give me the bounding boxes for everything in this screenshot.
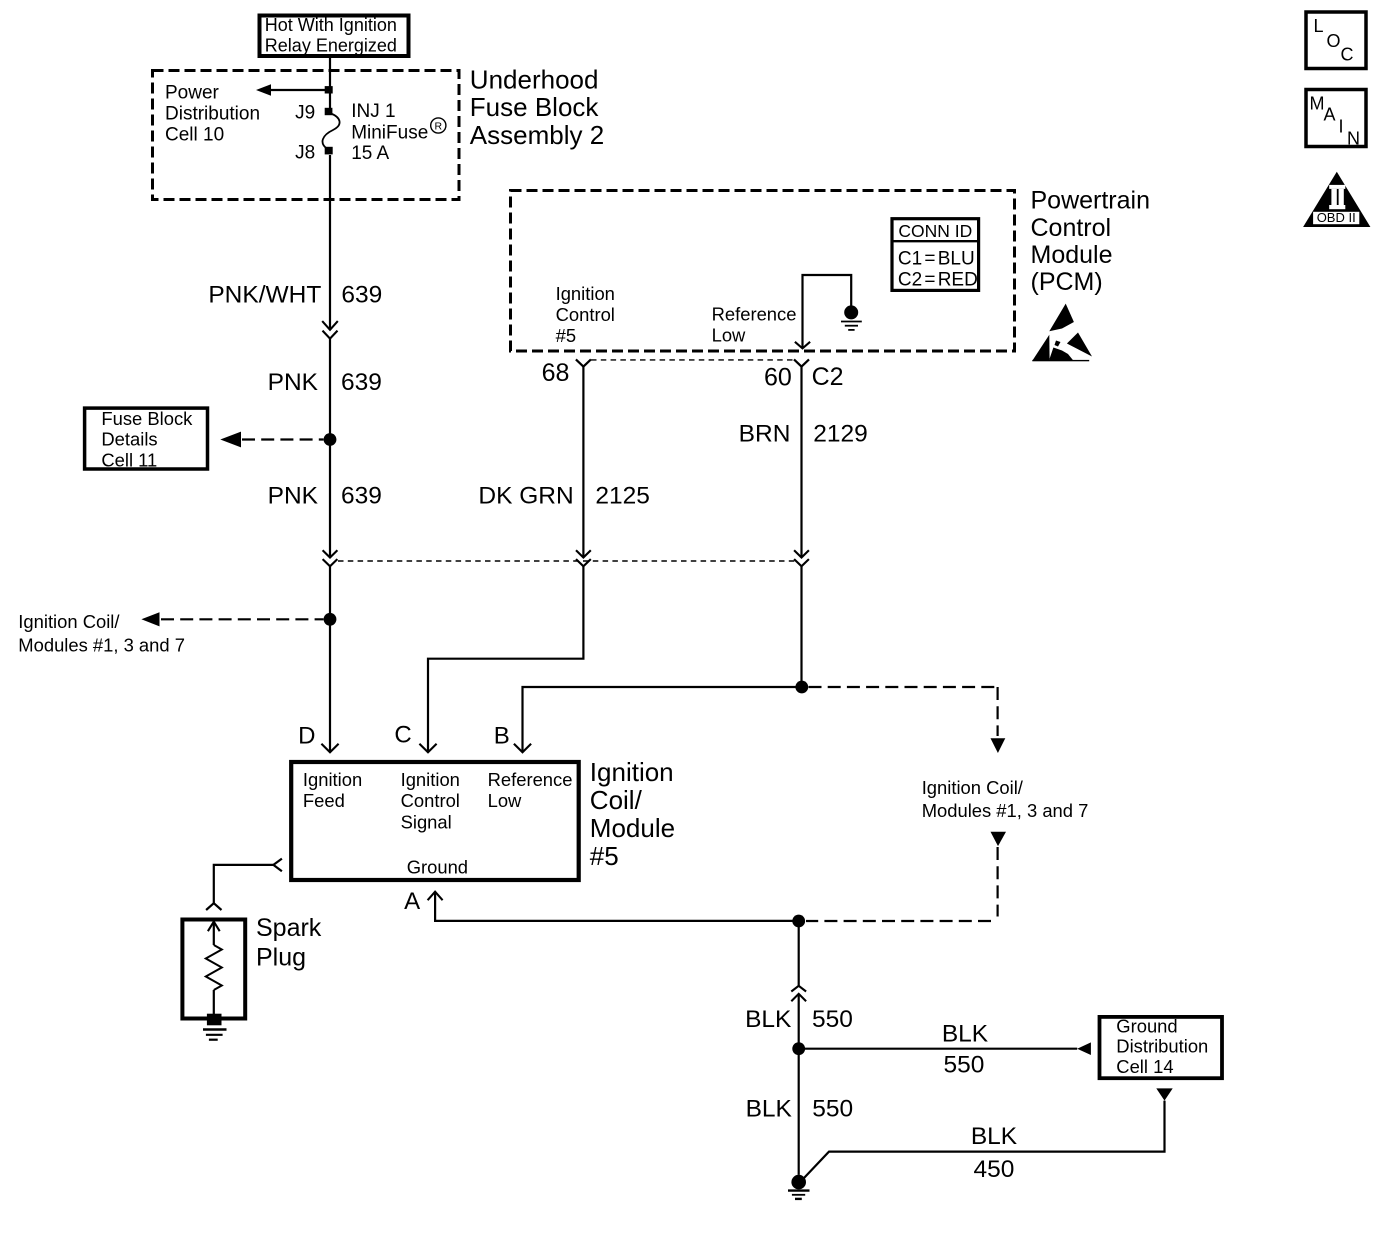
svg-text:Module: Module <box>1031 241 1113 269</box>
svg-text:Cell 11: Cell 11 <box>101 449 157 470</box>
svg-text:Reference: Reference <box>712 304 797 325</box>
svg-text:Control: Control <box>556 304 615 325</box>
svg-text:Assembly 2: Assembly 2 <box>470 120 604 150</box>
svg-text:BLK: BLK <box>971 1123 1018 1150</box>
svg-text:Cell 10: Cell 10 <box>165 125 224 146</box>
svg-text:O: O <box>1327 31 1341 51</box>
svg-text:Distribution: Distribution <box>1116 1035 1208 1056</box>
svg-text:15 A: 15 A <box>351 143 389 164</box>
svg-text:C: C <box>1341 44 1354 64</box>
svg-text:C: C <box>394 722 411 749</box>
svg-text:C2: C2 <box>812 363 844 391</box>
svg-text:Signal: Signal <box>401 812 452 833</box>
svg-text:#5: #5 <box>556 325 576 346</box>
svg-text:BLK: BLK <box>745 1006 792 1033</box>
svg-text:550: 550 <box>812 1006 853 1033</box>
svg-text:BLK: BLK <box>942 1021 989 1048</box>
svg-text:OBD II: OBD II <box>1317 210 1356 225</box>
svg-text:Ignition: Ignition <box>401 769 460 790</box>
svg-text:CONN ID: CONN ID <box>898 221 972 241</box>
svg-text:60: 60 <box>764 364 792 392</box>
svg-text:C2=RED: C2=RED <box>898 270 978 291</box>
svg-text:Control: Control <box>1031 214 1112 242</box>
svg-text:Ignition: Ignition <box>303 769 362 790</box>
svg-text:R: R <box>435 120 443 132</box>
svg-text:Fuse Block: Fuse Block <box>470 92 600 122</box>
svg-text:N: N <box>1347 129 1360 149</box>
svg-text:Ignition Coil/: Ignition Coil/ <box>18 611 120 632</box>
svg-text:639: 639 <box>341 369 382 396</box>
svg-text:#5: #5 <box>590 841 619 871</box>
svg-text:Ground: Ground <box>1116 1016 1177 1037</box>
svg-text:Reference: Reference <box>488 769 573 790</box>
svg-text:Powertrain: Powertrain <box>1031 187 1151 215</box>
svg-text:550: 550 <box>944 1052 985 1079</box>
svg-text:Module: Module <box>590 813 675 843</box>
svg-text:Ignition: Ignition <box>556 283 615 304</box>
svg-text:Coil/: Coil/ <box>590 785 643 815</box>
svg-text:PNK: PNK <box>268 482 319 509</box>
svg-text:M: M <box>1310 94 1325 114</box>
svg-text:J9: J9 <box>295 102 315 123</box>
svg-text:Hot With Ignition: Hot With Ignition <box>265 15 397 35</box>
svg-text:639: 639 <box>341 282 382 309</box>
svg-text:PNK/WHT: PNK/WHT <box>208 282 321 309</box>
svg-text:B: B <box>494 723 510 750</box>
svg-text:I: I <box>1339 117 1344 137</box>
svg-text:2129: 2129 <box>813 421 868 448</box>
svg-text:INJ 1: INJ 1 <box>351 101 395 122</box>
svg-text:(PCM): (PCM) <box>1031 268 1103 296</box>
svg-text:Low: Low <box>712 325 746 346</box>
svg-text:Underhood: Underhood <box>470 65 599 95</box>
svg-text:Ignition Coil/: Ignition Coil/ <box>922 777 1024 798</box>
svg-text:Low: Low <box>488 790 522 811</box>
svg-text:Distribution: Distribution <box>165 104 260 125</box>
svg-text:D: D <box>298 723 315 750</box>
svg-text:A: A <box>1324 105 1336 125</box>
svg-text:PNK: PNK <box>268 369 319 396</box>
svg-text:BLK: BLK <box>746 1095 793 1122</box>
svg-text:Plug: Plug <box>256 944 306 972</box>
svg-text:2125: 2125 <box>595 482 650 509</box>
svg-text:Details: Details <box>101 429 157 450</box>
svg-text:J8: J8 <box>295 143 315 164</box>
svg-text:550: 550 <box>812 1095 853 1122</box>
svg-text:Spark: Spark <box>256 914 322 942</box>
svg-text:Modules #1, 3 and 7: Modules #1, 3 and 7 <box>18 635 185 656</box>
svg-text:Modules #1, 3 and 7: Modules #1, 3 and 7 <box>922 800 1089 821</box>
svg-text:Feed: Feed <box>303 790 345 811</box>
svg-text:Ground: Ground <box>407 856 468 877</box>
svg-text:639: 639 <box>341 482 382 509</box>
svg-text:68: 68 <box>542 359 570 387</box>
svg-text:Ignition: Ignition <box>590 757 674 787</box>
svg-text:Control: Control <box>401 790 460 811</box>
svg-text:DK GRN: DK GRN <box>478 482 573 509</box>
svg-text:MiniFuse: MiniFuse <box>351 123 428 144</box>
svg-text:Power: Power <box>165 83 220 104</box>
svg-text:Relay Energized: Relay Energized <box>265 36 397 56</box>
svg-text:Cell 14: Cell 14 <box>1116 1056 1173 1077</box>
svg-text:L: L <box>1314 16 1324 36</box>
svg-text:450: 450 <box>974 1156 1015 1183</box>
svg-text:Fuse Block: Fuse Block <box>101 408 193 429</box>
svg-text:A: A <box>404 888 420 915</box>
svg-text:BRN: BRN <box>739 421 791 448</box>
